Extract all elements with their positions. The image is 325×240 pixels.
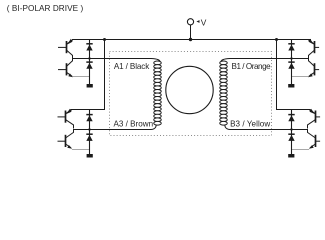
- diode D7: [288, 114, 294, 116]
- wire output B3: [230, 129, 308, 131]
- junction -V rail / supply drop: [189, 38, 192, 41]
- wire Q8 emitter: [292, 149, 310, 151]
- svg-text:B1 / Orange: B1 / Orange: [232, 62, 272, 71]
- wire diode column B3: [291, 110, 293, 155]
- wire coil-B exit curve: [225, 125, 230, 129]
- wire output A1: [73, 58, 152, 60]
- diode D5: [288, 43, 294, 45]
- wire Q4 emitter: [72, 149, 90, 151]
- svg-text:B3 / Yellow: B3 / Yellow: [230, 120, 270, 129]
- wire output B1: [230, 58, 309, 60]
- wire lower-right rail: [276, 109, 311, 111]
- arrow -V pointer: [196, 20, 199, 23]
- terminal blob A1 bridge: [87, 84, 93, 88]
- terminal blob A3 bridge: [87, 154, 93, 158]
- wire diode column A3: [89, 110, 91, 155]
- diode D4: [86, 133, 92, 135]
- wire coil-B entry curve: [221, 59, 230, 63]
- terminal -V circle: [187, 19, 193, 25]
- wire diode column A1: [89, 40, 91, 85]
- wire output A3: [74, 129, 152, 131]
- coil A winding loops: [154, 61, 162, 65]
- junction D7-D8 / output B3: [290, 128, 292, 130]
- diode D2: [86, 61, 92, 63]
- svg-text:V: V: [201, 18, 207, 28]
- terminal blob B1 bridge: [288, 84, 294, 88]
- terminal blob B3 bridge: [288, 154, 294, 158]
- wire coil-A entry curve: [151, 59, 160, 63]
- transistor Q8 (NPN lower of lower-right): [315, 135, 317, 147]
- transistor Q4 (NPN lower of lower-left): [65, 135, 67, 147]
- motor rotor circle: [166, 66, 213, 113]
- junction D3-D4 / output A3: [88, 128, 90, 130]
- junction D1-D2 / output A1: [88, 57, 90, 59]
- transistor Q7 (PNP upper of lower-right): [315, 111, 317, 123]
- svg-text:A1 / Black: A1 / Black: [114, 62, 150, 71]
- wire -V rail: [72, 39, 311, 41]
- wire Q2 emitter: [73, 76, 90, 78]
- transistor Q5 (PNP upper-right): [314, 41, 316, 53]
- wire right bus to lower bridge: [276, 40, 278, 110]
- diode D3: [86, 114, 92, 116]
- wire -V drop: [190, 25, 192, 40]
- wire left bus to lower bridge: [104, 40, 106, 110]
- junction D5-D6 / output B1: [290, 57, 292, 59]
- transistor Q3 (PNP upper of lower-left): [65, 111, 67, 123]
- svg-text:A3 / Brown: A3 / Brown: [114, 120, 154, 129]
- wire Q6 emitter: [292, 76, 309, 78]
- diode D6: [288, 61, 294, 63]
- junction -V rail / left bus: [103, 38, 106, 41]
- transistor Q6 (NPN lower-right): [314, 63, 316, 75]
- junction -V rail / right bus: [275, 38, 278, 41]
- motor outline dotted box: [110, 52, 272, 136]
- wire lower-left rail: [70, 109, 105, 111]
- wire diode column B1: [291, 40, 293, 85]
- transistor Q2 (NPN lower-left): [66, 63, 68, 75]
- svg-text:( BI-POLAR DRIVE ): ( BI-POLAR DRIVE ): [7, 4, 84, 13]
- diode D8: [288, 133, 294, 135]
- wire coil-A exit curve: [151, 125, 156, 129]
- transistor Q1 (PNP upper-left): [66, 41, 68, 53]
- diode D1: [86, 43, 92, 45]
- coil B winding loops: [220, 61, 228, 65]
